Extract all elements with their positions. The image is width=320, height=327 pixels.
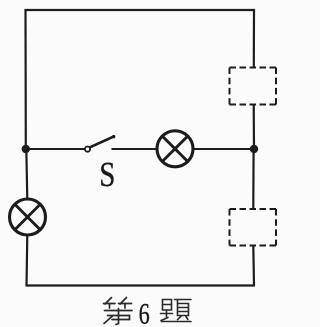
wire: right side, top corner down to top dashed box (253, 9, 255, 68)
wire: bottom side of circuit loop (26, 284, 256, 286)
junction node (right, middle branch meets right side) (250, 145, 258, 153)
wire: right side, right junction node down to bottom dashed box (252, 149, 255, 209)
dashed box placeholder (top right component) (230, 68, 277, 105)
caption digit 6 (139, 296, 150, 327)
lamp L1 cross stroke 1 (162, 136, 187, 161)
junction node (left, middle branch meets left side) (22, 145, 30, 153)
switch S blade (open, tilted up-right) (90, 137, 114, 148)
caption glyph 题 (hand drawn strokes) (161, 300, 192, 322)
svg-text:6: 6 (139, 296, 150, 327)
lamp L2 circle (left branch) (10, 199, 46, 235)
caption glyph 第 (hand drawn strokes) (104, 298, 133, 325)
wire: left side, top corner down to left junction node (24, 9, 26, 149)
lamp L1 cross stroke 2 (162, 136, 187, 161)
label S (switch) (99, 154, 115, 193)
wire: top side of circuit loop (25, 9, 256, 11)
lamp L2 cross stroke 2 (15, 204, 40, 229)
wire: right side, top dashed box down to right junction node (253, 105, 256, 150)
wire: right side, bottom dashed box down to bottom-right corner (252, 246, 255, 287)
wire: left side, lamp L2 bottom down to bottom-left corner (25, 235, 28, 287)
switch S hinge (small open circle) (85, 147, 90, 152)
wire: middle branch, switch to lamp L1 (112, 148, 157, 150)
wire: left side, junction node down to lamp L2 top (26, 149, 27, 200)
lamp L2 cross stroke 1 (15, 204, 40, 229)
switch S blade tip (112, 135, 115, 138)
wire: middle branch, lamp L1 to right junction (194, 148, 255, 150)
svg-text:S: S (99, 154, 115, 193)
dashed box placeholder (bottom right component) (230, 209, 277, 246)
lamp L1 circle (middle branch) (157, 131, 193, 167)
wire: middle branch, left junction to switch hinge (26, 148, 85, 150)
